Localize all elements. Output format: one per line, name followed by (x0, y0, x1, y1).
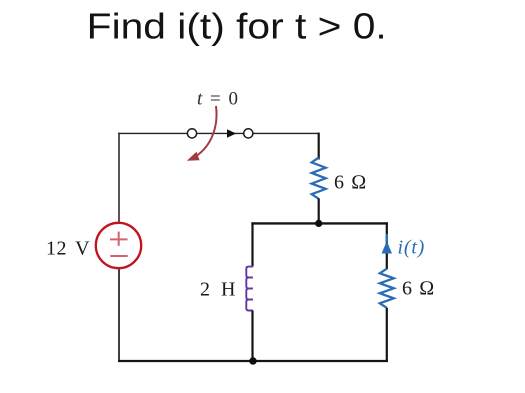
wire right branch upper (386, 222, 388, 269)
wire below inductor (251, 311, 253, 362)
label 6 ohm (top) (334, 172, 367, 194)
wire middle (251, 222, 388, 224)
wire mid-branch lower (318, 198, 320, 223)
label 6 ohm (right) (402, 278, 435, 300)
svg-text:6 Ω: 6 Ω (402, 278, 435, 300)
inductor L1 2 H (246, 267, 253, 311)
wire inductor branch top (251, 222, 253, 266)
switch contact triangle (227, 129, 236, 138)
switch motion arc (t=0) (187, 106, 217, 161)
title (87, 6, 387, 47)
current arrow i(t) (382, 234, 392, 254)
voltage source V1 (96, 223, 141, 268)
wire right branch lower (386, 308, 388, 362)
svg-text:t = 0: t = 0 (197, 89, 240, 110)
junction dot middle (315, 220, 322, 227)
svg-text:Find i(t) for t > 0.: Find i(t) for t > 0. (87, 6, 387, 47)
svg-text:i(t): i(t) (398, 237, 426, 259)
label i(t) (398, 237, 426, 259)
switch terminal left (187, 129, 196, 138)
wire left (118, 133, 120, 361)
wire top (118, 132, 319, 134)
svg-text:2 H: 2 H (200, 279, 238, 301)
svg-text:12 V: 12 V (46, 237, 90, 259)
switch terminal right (244, 129, 253, 138)
wire bottom (118, 360, 388, 362)
label 12 V (46, 237, 90, 259)
junction dot bottom (249, 357, 256, 364)
resistor R1 6 ohm (top, blue) (312, 158, 326, 199)
svg-text:6 Ω: 6 Ω (334, 172, 367, 194)
label 2 H (200, 279, 238, 301)
resistor R2 6 ohm (right, blue) (380, 269, 394, 308)
label t = 0 (197, 89, 240, 110)
wire mid-branch upper (318, 133, 320, 160)
